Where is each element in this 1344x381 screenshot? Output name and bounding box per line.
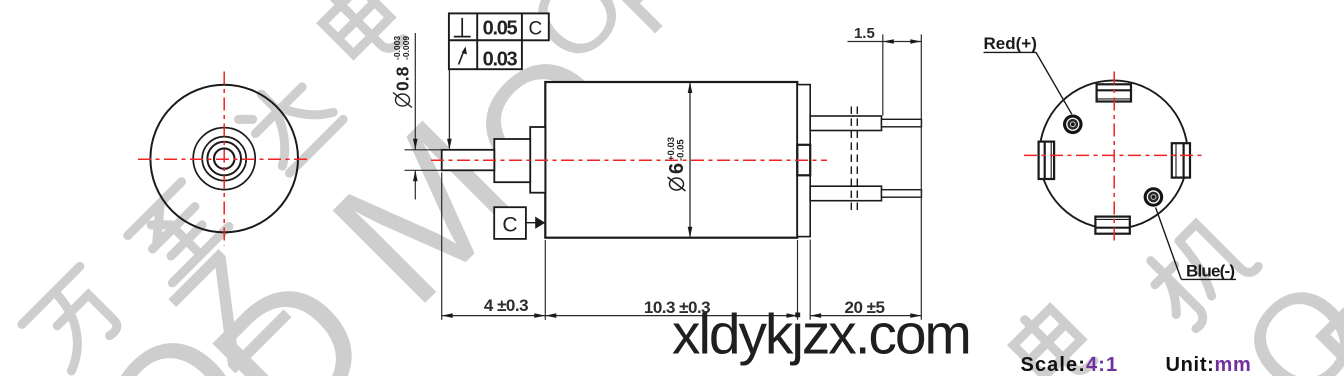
blue terminal eyelet: [1144, 187, 1164, 207]
svg-text:-0.05: -0.05: [676, 139, 687, 161]
svg-text:C: C: [529, 19, 543, 40]
left view centerline vertical: [223, 72, 225, 246]
top lead wire: [810, 116, 881, 131]
right view centerline horizontal: [1024, 154, 1204, 156]
dia 6 value label: [666, 137, 688, 191]
right view centerline vertical: [1113, 72, 1115, 241]
perpendicularity symbol: [454, 18, 471, 37]
svg-text:Unit:mm: Unit:mm: [1166, 354, 1252, 376]
dimension line 20 +-5: [810, 315, 921, 317]
left view outer circle: [150, 85, 298, 233]
dimension line 10.3 +-0.3: [545, 315, 797, 317]
dimension line 1.5: [848, 41, 922, 43]
Red(+) leader: [1036, 52, 1072, 114]
feature control frame: [449, 13, 549, 69]
Red(+) underline: [984, 51, 1037, 53]
svg-text:0.03: 0.03: [483, 49, 518, 71]
bottom tab: [1095, 217, 1129, 234]
datum C leader: [526, 222, 536, 224]
middle view centerline: [431, 159, 827, 161]
svg-text:Scale:4:1: Scale:4:1: [1021, 354, 1119, 376]
dia 0.8 dimension: [405, 33, 442, 200]
dia 6 dimension line: [689, 82, 691, 238]
svg-text:1.5: 1.5: [854, 25, 875, 42]
datum C box: [494, 207, 526, 239]
right view cap circle: [1039, 80, 1187, 228]
svg-text:4 ±0.3: 4 ±0.3: [484, 296, 528, 315]
svg-text:Blue(-): Blue(-): [1186, 261, 1234, 280]
front collar: [530, 127, 545, 193]
frame leader line: [448, 69, 450, 148]
left view centerline horizontal: [138, 158, 309, 160]
left view bearing housing circle: [193, 128, 255, 190]
wire break line right: [856, 107, 858, 215]
bottom extension lines: [442, 34, 922, 319]
svg-text:0.05: 0.05: [483, 18, 518, 40]
bottom lead wire: [810, 186, 881, 201]
svg-text:6: 6: [666, 163, 688, 174]
top bare wire tip: [882, 119, 922, 127]
svg-text:C: C: [502, 214, 517, 237]
end cap boss: [797, 145, 810, 176]
bearing bushing: [494, 139, 530, 182]
svg-text:0.8: 0.8: [393, 66, 413, 91]
left view hub circle: [207, 142, 241, 176]
svg-text:Red(+): Red(+): [984, 34, 1037, 53]
left view shaft circle: [214, 148, 234, 168]
wire break line left: [850, 107, 852, 215]
end cap: [797, 85, 810, 237]
watermark: [22, 0, 408, 374]
left tab: [1039, 142, 1055, 179]
datum C triangle: [535, 217, 545, 229]
circular runout symbol: [459, 47, 467, 65]
right tab: [1172, 143, 1190, 177]
left view bearing circle: [202, 137, 246, 181]
bottom bare wire tip: [882, 190, 922, 198]
motor body: [545, 82, 797, 238]
shaft: [442, 150, 495, 171]
Blue(-) underline: [1181, 278, 1236, 280]
svg-text:xldykjzx.com: xldykjzx.com: [672, 302, 970, 366]
svg-text:-0.009: -0.009: [401, 36, 411, 60]
top tab: [1097, 84, 1131, 101]
red terminal eyelet: [1063, 115, 1083, 135]
Blue(-) leader: [1156, 208, 1182, 280]
dia 0.8 value label: [392, 36, 413, 108]
dimension line 4 +-0.3: [442, 315, 546, 317]
